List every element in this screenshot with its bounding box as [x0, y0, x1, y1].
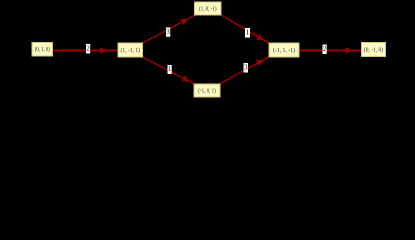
- svg-text:3: 3: [166, 29, 170, 36]
- svg-text:(1, -1, 1): (1, -1, 1): [121, 47, 141, 54]
- svg-text:(-1, 1, -1): (-1, 1, -1): [273, 47, 295, 54]
- svg-text:(0, -1, 0): (0, -1, 0): [364, 46, 383, 53]
- svg-text:3: 3: [244, 64, 248, 71]
- svg-text:(-1, 0, 1): (-1, 0, 1): [198, 87, 216, 94]
- svg-text:(1, 0, -1): (1, 0, -1): [199, 5, 217, 12]
- svg-text:1: 1: [245, 30, 249, 37]
- svg-text:2: 2: [323, 46, 327, 53]
- svg-text:2: 2: [86, 45, 90, 52]
- svg-text:(0, 1, 0): (0, 1, 0): [35, 46, 50, 53]
- svg-text:1: 1: [168, 66, 171, 73]
